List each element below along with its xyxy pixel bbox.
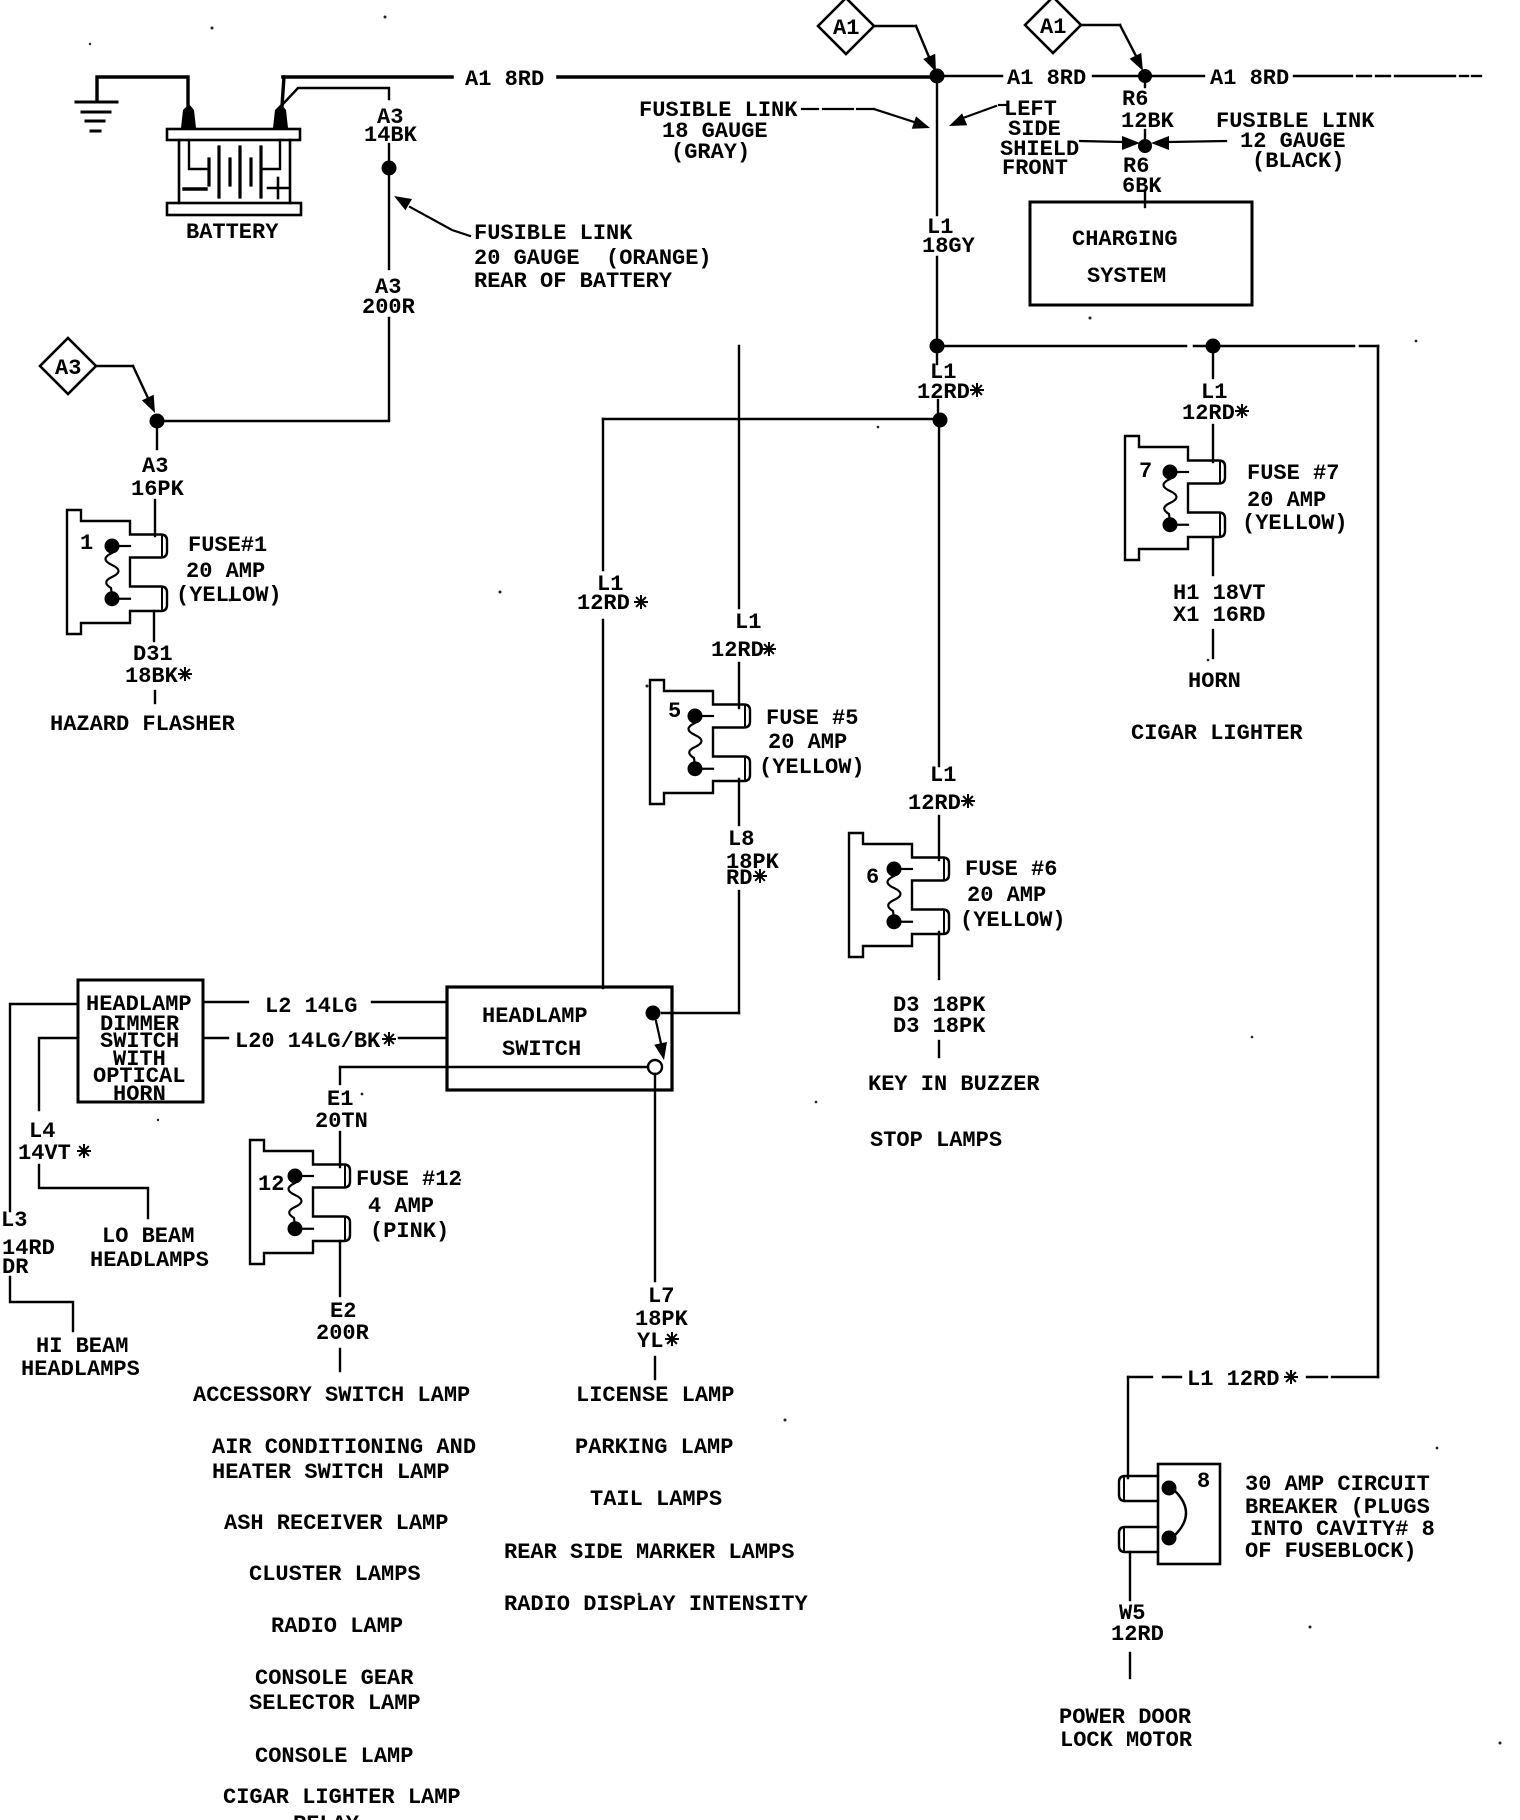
svg-text:FUSE #6: FUSE #6 xyxy=(965,857,1057,882)
svg-text:OF FUSEBLOCK): OF FUSEBLOCK) xyxy=(1245,1539,1417,1564)
svg-text:4 AMP: 4 AMP xyxy=(368,1194,434,1219)
svg-text:12RD: 12RD xyxy=(908,791,961,816)
svg-text:(BLACK): (BLACK) xyxy=(1252,149,1344,174)
svg-text:A3: A3 xyxy=(55,356,81,381)
svg-text:CHARGING: CHARGING xyxy=(1072,227,1178,252)
svg-text:20TN: 20TN xyxy=(315,1109,368,1134)
svg-text:STOP LAMPS: STOP LAMPS xyxy=(870,1128,1002,1153)
svg-text:20 GAUGE (ORANGE): 20 GAUGE (ORANGE) xyxy=(474,246,712,271)
svg-text:L1: L1 xyxy=(930,763,956,788)
svg-text:(YELLOW): (YELLOW) xyxy=(759,755,865,780)
svg-text:(YELLOW): (YELLOW) xyxy=(960,908,1066,933)
svg-text:RELAY: RELAY xyxy=(293,1812,360,1820)
svg-text:CIGAR LIGHTER: CIGAR LIGHTER xyxy=(1131,721,1303,746)
svg-text:A1 8RD: A1 8RD xyxy=(465,67,544,92)
svg-text:(YELLOW): (YELLOW) xyxy=(176,583,282,608)
svg-text:16PK: 16PK xyxy=(131,477,185,502)
svg-text:14BK: 14BK xyxy=(364,123,418,148)
svg-text:7: 7 xyxy=(1139,459,1152,484)
svg-text:30 AMP CIRCUIT: 30 AMP CIRCUIT xyxy=(1245,1472,1430,1497)
svg-text:TAIL LAMPS: TAIL LAMPS xyxy=(590,1487,722,1512)
svg-text:RADIO LAMP: RADIO LAMP xyxy=(271,1614,403,1639)
svg-text:18BK: 18BK xyxy=(125,664,179,689)
svg-text:12RD: 12RD xyxy=(1111,1622,1164,1647)
svg-text:HEADLAMP: HEADLAMP xyxy=(482,1004,588,1029)
svg-text:20 AMP: 20 AMP xyxy=(768,730,847,755)
svg-text:LICENSE LAMP: LICENSE LAMP xyxy=(576,1383,734,1408)
svg-text:(YELLOW): (YELLOW) xyxy=(1242,511,1348,536)
svg-text:20 AMP: 20 AMP xyxy=(1247,488,1326,513)
svg-text:SWITCH: SWITCH xyxy=(502,1037,581,1062)
svg-text:FUSE #12: FUSE #12 xyxy=(356,1167,462,1192)
svg-text:CONSOLE GEAR: CONSOLE GEAR xyxy=(255,1666,414,1691)
svg-text:6BK: 6BK xyxy=(1122,174,1162,199)
svg-text:5: 5 xyxy=(668,699,681,724)
svg-text:A3: A3 xyxy=(142,454,168,479)
svg-text:CONSOLE LAMP: CONSOLE LAMP xyxy=(255,1744,413,1769)
svg-text:1: 1 xyxy=(80,531,93,556)
svg-text:HEADLAMPS: HEADLAMPS xyxy=(21,1357,140,1382)
svg-text:12: 12 xyxy=(258,1172,284,1197)
svg-text:HAZARD FLASHER: HAZARD FLASHER xyxy=(50,712,236,737)
svg-text:18GY: 18GY xyxy=(922,234,976,259)
svg-text:L1: L1 xyxy=(735,610,761,635)
svg-text:RADIO DISPLAY INTENSITY: RADIO DISPLAY INTENSITY xyxy=(504,1592,808,1617)
svg-text:L1 12RD: L1 12RD xyxy=(1187,1367,1279,1392)
svg-text:RD: RD xyxy=(726,866,752,891)
svg-text:YL: YL xyxy=(637,1329,663,1354)
svg-text:8: 8 xyxy=(1197,1469,1210,1494)
svg-text:L7: L7 xyxy=(648,1284,674,1309)
svg-text:HORN: HORN xyxy=(113,1082,166,1107)
svg-text:LOCK MOTOR: LOCK MOTOR xyxy=(1060,1728,1193,1753)
svg-text:KEY IN BUZZER: KEY IN BUZZER xyxy=(868,1072,1040,1097)
svg-text:HORN: HORN xyxy=(1188,669,1241,694)
svg-text:REAR SIDE MARKER LAMPS: REAR SIDE MARKER LAMPS xyxy=(504,1540,794,1565)
svg-text:12RD: 12RD xyxy=(577,591,630,616)
svg-text:L8: L8 xyxy=(728,827,754,852)
svg-text:FUSE#1: FUSE#1 xyxy=(188,533,267,558)
svg-text:SYSTEM: SYSTEM xyxy=(1087,264,1166,289)
svg-text:HI BEAM: HI BEAM xyxy=(36,1334,128,1359)
svg-text:FUSIBLE LINK: FUSIBLE LINK xyxy=(474,221,633,246)
svg-text:(GRAY): (GRAY) xyxy=(671,140,750,165)
svg-text:200R: 200R xyxy=(362,295,416,320)
svg-text:12RD: 12RD xyxy=(917,380,970,405)
svg-text:6: 6 xyxy=(866,865,879,890)
svg-text:FUSE #5: FUSE #5 xyxy=(766,706,858,731)
svg-text:ASH RECEIVER LAMP: ASH RECEIVER LAMP xyxy=(224,1511,448,1536)
svg-text:DR: DR xyxy=(2,1255,29,1280)
svg-text:HEADLAMPS: HEADLAMPS xyxy=(90,1248,209,1273)
svg-text:12BK: 12BK xyxy=(1121,109,1175,134)
svg-text:12RD: 12RD xyxy=(1182,401,1235,426)
svg-text:LO BEAM: LO BEAM xyxy=(102,1224,194,1249)
svg-text:20 AMP: 20 AMP xyxy=(186,559,265,584)
svg-text:14VT: 14VT xyxy=(18,1141,71,1166)
svg-text:PARKING LAMP: PARKING LAMP xyxy=(575,1435,733,1460)
svg-text:A1 8RD: A1 8RD xyxy=(1007,66,1086,91)
svg-text:12RD: 12RD xyxy=(711,638,764,663)
svg-text:A1: A1 xyxy=(833,16,859,41)
svg-text:FUSE #7: FUSE #7 xyxy=(1247,461,1339,486)
svg-text:200R: 200R xyxy=(316,1321,370,1346)
svg-text:POWER DOOR: POWER DOOR xyxy=(1059,1705,1192,1730)
svg-text:REAR OF BATTERY: REAR OF BATTERY xyxy=(474,269,673,294)
svg-text:HEATER SWITCH LAMP: HEATER SWITCH LAMP xyxy=(212,1460,450,1485)
svg-text:L20 14LG/BK: L20 14LG/BK xyxy=(235,1029,381,1054)
svg-text:(PINK): (PINK) xyxy=(370,1219,449,1244)
svg-text:BATTERY: BATTERY xyxy=(186,220,279,245)
svg-text:A1 8RD: A1 8RD xyxy=(1210,66,1289,91)
svg-text:L2 14LG: L2 14LG xyxy=(265,994,357,1019)
svg-text:CIGAR LIGHTER LAMP: CIGAR LIGHTER LAMP xyxy=(223,1785,461,1810)
svg-text:L3: L3 xyxy=(1,1208,27,1233)
svg-text:FRONT: FRONT xyxy=(1002,156,1068,181)
svg-text:20 AMP: 20 AMP xyxy=(967,883,1046,908)
svg-text:CLUSTER LAMPS: CLUSTER LAMPS xyxy=(249,1562,421,1587)
svg-text:D3 18PK: D3 18PK xyxy=(893,1014,986,1039)
svg-text:SELECTOR LAMP: SELECTOR LAMP xyxy=(249,1691,421,1716)
svg-text:X1 16RD: X1 16RD xyxy=(1173,603,1265,628)
svg-text:A1: A1 xyxy=(1040,15,1066,40)
svg-text:ACCESSORY SWITCH LAMP: ACCESSORY SWITCH LAMP xyxy=(193,1383,470,1408)
svg-text:AIR CONDITIONING AND: AIR CONDITIONING AND xyxy=(212,1435,476,1460)
